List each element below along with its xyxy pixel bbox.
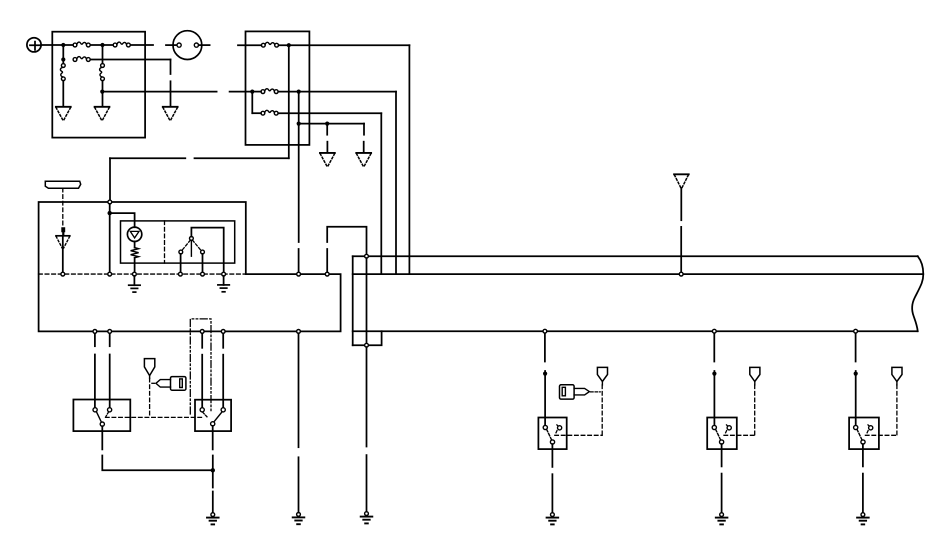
wire x223 upper (222, 333, 224, 347)
keyless transmitter fob (45, 181, 80, 188)
fuse F2 (113, 42, 130, 47)
unit1 key symbol (560, 385, 590, 399)
internal dashed bus (39, 273, 246, 275)
unit1 key tag pentagon (597, 367, 607, 385)
junction dot lamp branch (108, 211, 112, 215)
unit1 arm dashed (547, 429, 552, 440)
unit2 contact curl (727, 425, 732, 430)
node circle on bus x327 (325, 272, 329, 276)
unit1 ground wire upper (551, 444, 553, 467)
unit2 wire lower (713, 371, 715, 425)
dashed linkage between switches (106, 416, 204, 418)
right box left edge (352, 256, 354, 345)
vertical fuse FV2 (100, 64, 105, 81)
junction dot row1-b (100, 43, 104, 47)
wire contact right to bus (202, 254, 204, 272)
unit1 dash key to tag line (591, 391, 601, 393)
door switch unit1 box (538, 418, 566, 450)
vertical fuse FV2 feed (102, 45, 104, 63)
wire y123 horizontal (299, 123, 364, 125)
junction dot box2 row2 left (250, 90, 254, 94)
junction dot y123 right (325, 122, 329, 126)
wire resistor to bus (134, 258, 136, 272)
wire x327 up upper and over to right box (327, 227, 366, 255)
unit1 terminal (543, 425, 547, 429)
wire lamp to resistor (134, 242, 136, 248)
wire tab to ground lower (366, 455, 368, 512)
receiver filled mark (61, 227, 65, 235)
dash-dot immobilizer box (190, 319, 211, 414)
wire switch1 common lower and over (102, 456, 213, 471)
key tag pentagon P1 (144, 359, 154, 379)
indicator lamp (LED) circle (127, 227, 141, 241)
wire arrow T4 feed lower (326, 142, 328, 152)
battery positive terminal B+ (27, 38, 41, 52)
wire from row1 dot down (288, 45, 290, 158)
junction dot row1-a (61, 43, 65, 47)
node circle top edge (108, 200, 112, 204)
wire pivot up and over (191, 228, 223, 273)
node circle on bus x134 (133, 272, 137, 276)
node circle right box top x366 (365, 254, 369, 258)
vertical fuse FV1 feed (62, 60, 64, 64)
unit3 wire lower (855, 371, 857, 425)
unit1 stub dashed (556, 431, 557, 433)
chassis ground G4 (547, 513, 559, 525)
wire row2 stub (252, 91, 261, 93)
dashed wire P1 to linkage (149, 378, 151, 417)
junction dot box2 row2 right (297, 90, 301, 94)
node circle on bus x62 (61, 272, 65, 276)
vertical row1 to row2 at x63 (62, 45, 64, 60)
wire x94 lower (94, 355, 96, 408)
node circle ground tab (365, 343, 369, 347)
wire row1 to corner (279, 44, 410, 46)
wire to ground G1 (212, 492, 214, 513)
wire feed1 down right-box (408, 45, 410, 274)
door switch box 1 (73, 400, 130, 432)
wire x94 upper (94, 333, 96, 346)
unit1 connector dot (543, 372, 547, 376)
switch1 terminal right (108, 408, 112, 412)
node circle antenna on inner line (679, 272, 683, 276)
door switch unit3 box (849, 418, 879, 450)
wire feed3 down right-box (380, 113, 382, 274)
unit3 key tag pentagon (892, 367, 902, 385)
connector C1 circle (173, 31, 202, 60)
door switch box 2 (195, 400, 231, 431)
wire row2 lower segment after break (170, 81, 172, 106)
connector C1 terminal left (177, 43, 181, 47)
wire x298 down lower (298, 457, 300, 512)
switch1 common circle (100, 422, 104, 426)
switch2 arm (214, 412, 222, 421)
wire y158 right segment (195, 157, 289, 159)
wire arrow T5 feed upper (363, 124, 365, 135)
switch2 terminal right (221, 408, 225, 412)
unit1 wire lower (544, 371, 546, 425)
wire x298 down upper (298, 333, 300, 447)
chassis ground G2 (293, 513, 305, 525)
arrow T5 to other circuit (356, 153, 371, 167)
wire row2 segment (90, 59, 170, 61)
wire x202 upper (201, 333, 203, 347)
unit2 dashed tag line (754, 385, 756, 435)
switch2 common circle (211, 422, 215, 426)
arrow T4 to other circuit (320, 153, 335, 167)
wire antenna down upper (680, 188, 682, 220)
junction dot y470 (211, 468, 215, 472)
unit1 ground wire lower (551, 474, 553, 512)
wire x202 lower (201, 355, 203, 408)
junction dot row2 (61, 57, 65, 61)
dash key K1 to tag line (151, 382, 155, 384)
relay switch pivot circle (190, 237, 194, 241)
arrow T2 to other circuit (95, 107, 110, 121)
unit3 common circle (861, 440, 865, 444)
wire antenna down lower (680, 227, 682, 272)
chassis ground G5 (716, 513, 728, 525)
switch1 arm (96, 412, 101, 422)
wire tab to ground upper (366, 347, 368, 446)
key symbol K1 (156, 377, 186, 391)
relay switch dashed diagonal left (182, 240, 190, 250)
fuse box 1 outline (52, 32, 145, 138)
door switch unit2 box (707, 418, 737, 450)
unit1 dashed linkage (555, 434, 602, 436)
unit2 common circle (720, 440, 724, 444)
unit2 key tag pentagon (750, 367, 760, 385)
wire receiver to bus (62, 236, 64, 272)
right box ground tab (353, 331, 382, 345)
wire x298 down lower (298, 249, 300, 272)
wire branch to lamp (110, 213, 135, 227)
wire into fuse box 2 row1 (238, 44, 261, 46)
unit3 terminal (854, 425, 858, 429)
wire into connector C1 (166, 44, 177, 46)
right box wavy torn edge (912, 256, 923, 331)
lamp inner triangle (130, 231, 139, 238)
unit1 dashed tag line (601, 385, 603, 435)
wire row2 to corner (278, 91, 396, 93)
wire contact left to bus (180, 254, 182, 272)
vertical fuse FV1 (60, 64, 65, 81)
wire down from node (109, 204, 111, 272)
junction dot row3 feed (100, 90, 104, 94)
chassis ground G1 (207, 513, 219, 525)
fuse F3 (73, 57, 90, 62)
wire row2 corner down to arrow (170, 60, 172, 75)
wire switch2 common down (212, 426, 214, 450)
node circle on bus x202 (201, 272, 205, 276)
switch2 terminal left (200, 408, 204, 412)
wire feed2 down right-box (395, 92, 397, 275)
right box top edge (353, 255, 918, 257)
node circle on bus x109 (108, 272, 112, 276)
chassis ground G3 (361, 512, 373, 524)
chassis ground G6 (857, 513, 869, 525)
unit1 wire upper (544, 333, 546, 361)
right box inner line (353, 273, 924, 275)
fuse F1 (73, 42, 90, 47)
relay switch dashed diagonal right (193, 240, 201, 250)
fuse box 2 outline (246, 31, 310, 144)
unit3 dashed tag line (896, 385, 898, 435)
wire arrow T5 feed lower (363, 142, 365, 152)
switch2 dashed stub (203, 412, 208, 417)
wire battery to fuse box (41, 44, 63, 46)
node circles on control unit bottom edge (93, 330, 97, 334)
dashed wire transmitter to receiver (62, 188, 64, 227)
unit3 stub dashed (867, 431, 868, 433)
unit2 terminal (712, 425, 716, 429)
wire FV2 to arrow T2 (102, 81, 104, 106)
junction dot box2 row1 (287, 43, 291, 47)
wire bus to earth ground 1 (133, 276, 135, 285)
wire row1 segment (63, 44, 73, 46)
earth ground GE1 (129, 285, 140, 292)
wire out of connector C1 (199, 44, 210, 46)
unit2 connector dot (712, 372, 716, 376)
unit2 arm dashed (716, 429, 721, 440)
unit2 stub dashed (726, 431, 727, 433)
fuse F6 row3 (261, 110, 278, 115)
wire x327 up lower (326, 249, 328, 272)
wire horizontal y91.6 left part (102, 91, 216, 93)
arrow T1 to other circuit (56, 107, 71, 121)
wire row3 to corner (278, 112, 381, 114)
unit2 ground wire lower (721, 474, 723, 513)
unit3 contact curl (868, 425, 873, 430)
unit1 contact curl (557, 425, 562, 430)
unit3 ground wire upper (862, 444, 864, 466)
connector C1 terminal right (194, 43, 198, 47)
fuse F5 row2 (261, 89, 278, 94)
inner box dashed divider (164, 221, 166, 263)
unit2 wire upper (713, 333, 715, 361)
node circle on bus x223 (222, 272, 226, 276)
right box bottom edge (353, 330, 918, 332)
wire bus to earth ground 2 (223, 276, 225, 285)
fuse F4 row1 (261, 42, 278, 47)
node circles right box bottom edge (543, 329, 547, 333)
unit3 arm dashed (857, 429, 862, 440)
relay / unit inner box (121, 221, 235, 263)
junction dot y123 (297, 122, 301, 126)
arrow T3 to other circuit (163, 107, 178, 121)
wire x298 down upper (298, 92, 300, 242)
switch1 dashed stub (106, 412, 109, 417)
relay switch arm (190, 240, 192, 256)
relay contact right circle (201, 250, 205, 254)
wire switch2 common lower (212, 456, 214, 488)
node circle on bus x180 (179, 272, 183, 276)
unit3 dashed linkage (865, 434, 897, 436)
wire FV1 to arrow T1 (62, 81, 64, 106)
earth ground GE2 (218, 285, 229, 292)
wire row1 to connector (131, 44, 154, 46)
switch1 terminal left (93, 408, 97, 412)
wire row3 stub (252, 112, 261, 114)
resistor zigzag (131, 248, 139, 258)
node circle on bus x298 (297, 272, 301, 276)
unit3 connector dot (854, 372, 858, 376)
relay contact left circle (179, 250, 183, 254)
wire row1 segment (90, 44, 113, 46)
unit1 common circle (550, 440, 554, 444)
wire arrow T4 feed upper (326, 124, 328, 135)
antenna arrow symbol (674, 174, 689, 188)
wire y158 left segment (110, 157, 185, 159)
unit3 wire upper (855, 333, 857, 361)
control unit outline (39, 202, 341, 331)
wire row2 to row3 (251, 92, 253, 114)
unit2 dashed linkage (724, 434, 755, 436)
wire x366 internal to tab (366, 258, 368, 343)
wire x223 lower (222, 355, 224, 408)
unit3 ground wire lower (862, 474, 864, 513)
wire x109 lower (109, 355, 111, 408)
wire x109 upper (109, 333, 111, 346)
unit2 ground wire upper (721, 444, 723, 466)
wire switch1 common down (101, 426, 103, 449)
wire down to control unit (109, 158, 111, 200)
wire horizontal y91.6 right part (230, 91, 253, 93)
receiver triangle (56, 236, 70, 248)
